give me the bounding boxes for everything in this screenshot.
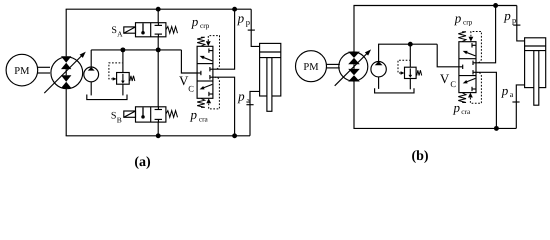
svg-text:a: a bbox=[246, 96, 250, 105]
node: bottom bus p_a junction (b) bbox=[494, 126, 499, 131]
measurement tick p_p (a) bbox=[248, 29, 255, 31]
svg-text:C: C bbox=[450, 79, 456, 89]
tank (b) bbox=[375, 88, 414, 93]
svg-text:V: V bbox=[440, 71, 450, 86]
svg-text:p: p bbox=[237, 11, 245, 26]
solenoid valve S_A (a) bbox=[124, 23, 178, 37]
pilot line (dashed) relief valve (b) bbox=[398, 60, 410, 74]
svg-text:(a): (a) bbox=[134, 155, 151, 170]
node: bottom bus p_a junction (a) bbox=[232, 133, 237, 138]
wire: V_C upper right port to top bus (b) bbox=[476, 6, 496, 63]
svg-text:p: p bbox=[503, 8, 511, 23]
label p_cra (b) bbox=[453, 100, 471, 116]
shaft PM-pump (a) bbox=[38, 67, 50, 73]
svg-text:a: a bbox=[510, 90, 514, 99]
svg-text:PM: PM bbox=[303, 62, 319, 73]
relief valve (a) bbox=[117, 73, 135, 85]
wire: p_a line cylinder to bottom bus (b) bbox=[516, 85, 524, 128]
spring top V_C (a) bbox=[197, 37, 205, 46]
label p_crp (a) bbox=[191, 14, 210, 30]
svg-text:S: S bbox=[111, 111, 117, 122]
svg-text:p: p bbox=[237, 88, 245, 103]
label S_A (a) bbox=[111, 25, 123, 39]
wire: top bus to S_A (a) bbox=[157, 9, 159, 23]
wire: p_p branch to V_C upper right port (a) bbox=[213, 9, 235, 69]
wire: bottom bus (b) bbox=[353, 127, 516, 129]
shaft PM-pump (b) bbox=[327, 64, 340, 68]
spring bottom V_C (b) bbox=[458, 93, 466, 103]
pilot/charge pump (b) bbox=[371, 61, 386, 76]
wire: pilot pump inlet to tank (b) bbox=[378, 77, 380, 89]
pilot line (dashed) p_crp feedback (a) bbox=[208, 36, 219, 70]
wire: relief valve supply line (b) bbox=[409, 44, 411, 67]
label V_C (a) bbox=[179, 73, 194, 93]
svg-text:PM: PM bbox=[14, 66, 30, 77]
wire: p_a line cylinder to bottom bus (a) bbox=[250, 91, 260, 135]
variable displacement pump (a) bbox=[44, 52, 86, 94]
wire: S_A to rail (a) bbox=[157, 37, 159, 50]
svg-text:p: p bbox=[246, 17, 250, 27]
svg-text:p: p bbox=[512, 15, 516, 25]
node: top bus p_p junction (b) bbox=[493, 3, 498, 8]
pilot line (dashed) p_crp feedback (b) bbox=[471, 32, 482, 63]
wire: relief valve drain to tank (a) bbox=[122, 84, 124, 95]
svg-text:C: C bbox=[188, 84, 194, 94]
solenoid valve S_B (a) bbox=[124, 107, 178, 122]
label p_a (a) bbox=[237, 88, 250, 105]
pilot line (dashed) p_cra feedback (b) bbox=[470, 72, 481, 103]
wire: p_p line to cylinder (b) bbox=[517, 6, 525, 41]
label V_C (b) bbox=[440, 71, 457, 89]
svg-text:p: p bbox=[190, 107, 198, 122]
pilot arrow top V_C (b) bbox=[469, 37, 474, 42]
tank (a) bbox=[87, 95, 127, 100]
svg-text:cra: cra bbox=[461, 107, 471, 116]
wire: V_C lower right port to bottom bus (b) bbox=[476, 72, 496, 128]
wire: rail to V_C left port (a) bbox=[181, 50, 197, 73]
pilot line (dashed) relief valve (a) bbox=[109, 63, 122, 81]
svg-text:A: A bbox=[117, 30, 123, 39]
wire: pilot rail (a) bbox=[91, 49, 181, 51]
measurement tick p_p (b) bbox=[513, 24, 520, 26]
wire: S_B to bottom bus (a) bbox=[157, 122, 159, 136]
svg-text:p: p bbox=[191, 14, 199, 29]
measurement tick p_a (b) bbox=[512, 101, 519, 103]
control valve V_C (b): body bbox=[459, 42, 476, 93]
hydraulic cylinder (b) bbox=[525, 38, 546, 105]
wire: p_p line to cylinder (a) bbox=[251, 9, 259, 46]
spring bottom V_C (a) bbox=[197, 98, 205, 107]
wire: pilot pump inlet to tank (a) bbox=[90, 82, 92, 96]
hydraulic cylinder (a) bbox=[260, 43, 281, 111]
node: bottom bus / S_B junction (a) bbox=[156, 133, 161, 138]
wire: pilot pump outlet rail (b) bbox=[379, 44, 438, 61]
wire: relief valve supply line (a) bbox=[122, 50, 124, 73]
wire: top bus (a) bbox=[66, 8, 252, 10]
pilot arrow bottom V_C (a) bbox=[206, 98, 211, 103]
wire: bottom bus (a) bbox=[66, 135, 250, 137]
prime mover PM (b) bbox=[296, 51, 327, 82]
node: top bus / S_A junction (a) bbox=[156, 7, 161, 12]
wire: pump bottom port (a) bbox=[65, 88, 67, 136]
pilot line (dashed) p_cra feedback (a) bbox=[209, 77, 220, 109]
node: rail-relief junction (b) bbox=[408, 42, 413, 47]
wire: rail to S_B (a) bbox=[157, 50, 159, 107]
label p_a (b) bbox=[501, 83, 514, 99]
svg-text:crp: crp bbox=[200, 21, 210, 30]
pilot/charge pump (a) bbox=[84, 67, 99, 82]
svg-text:crp: crp bbox=[463, 18, 473, 27]
wire: pump bottom port (b) bbox=[353, 81, 355, 128]
svg-text:(b): (b) bbox=[411, 149, 428, 164]
measurement tick p_a (a) bbox=[246, 104, 253, 106]
svg-text:cra: cra bbox=[199, 114, 209, 123]
pilot arrow top V_C (a) bbox=[206, 41, 211, 46]
wire: pump top port (a) bbox=[65, 9, 67, 56]
svg-text:p: p bbox=[454, 10, 462, 25]
label p_crp (b) bbox=[454, 10, 473, 26]
node: top bus p_p junction (a) bbox=[232, 7, 237, 12]
wire: pilot pump outlet to rail (a) bbox=[90, 50, 92, 67]
relief valve (b) bbox=[405, 67, 422, 78]
prime mover PM (a) bbox=[6, 54, 38, 86]
svg-text:p: p bbox=[453, 100, 461, 115]
label p_p (a) bbox=[237, 11, 250, 27]
svg-text:B: B bbox=[117, 116, 122, 125]
node: rail / S valves junction (a) bbox=[156, 47, 161, 52]
wire: pump top port (b) bbox=[353, 6, 355, 52]
variable displacement pump (b) bbox=[335, 49, 371, 85]
wire: top bus (b) bbox=[353, 5, 516, 7]
wire: rail to V_C left port (b) bbox=[437, 44, 459, 67]
svg-text:p: p bbox=[501, 83, 509, 98]
node: rail-relief junction (a) bbox=[120, 47, 125, 52]
label p_cra (a) bbox=[190, 107, 209, 123]
spring top V_C (b) bbox=[458, 32, 466, 42]
label p_p (b) bbox=[503, 8, 516, 25]
control valve V_C (a): body bbox=[197, 46, 213, 98]
wire: relief valve drain to tank (b) bbox=[409, 79, 411, 90]
wire: V_C lower right port to bottom bus (a) bbox=[213, 77, 235, 136]
label S_B (a) bbox=[111, 111, 122, 125]
pilot arrow bottom V_C (b) bbox=[468, 93, 473, 98]
